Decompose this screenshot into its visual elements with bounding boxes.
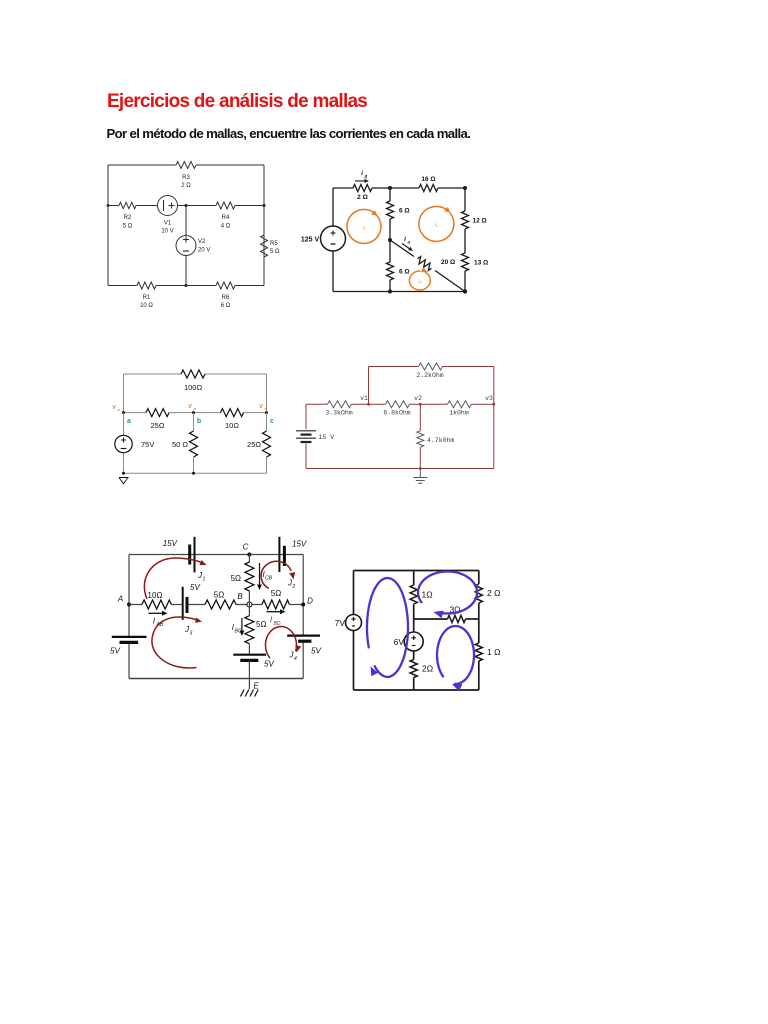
- node B (open): [237, 592, 252, 607]
- current I_BD arrow: [267, 609, 286, 627]
- page title: [107, 92, 367, 111]
- svg-text:20 Ω: 20 Ω: [441, 259, 455, 266]
- svg-text:3: 3: [190, 631, 193, 637]
- svg-text:7V: 7V: [335, 618, 346, 628]
- svg-text:2 Ω: 2 Ω: [487, 588, 500, 598]
- node top right: [463, 186, 467, 190]
- svg-text:5V: 5V: [110, 647, 120, 656]
- resistor 5 ohm B-E vertical: [245, 605, 267, 655]
- resistor 6.8kOhm: [383, 401, 410, 417]
- svg-text:10 Ω: 10 Ω: [140, 303, 153, 309]
- node a: [112, 405, 131, 425]
- svg-text:5Ω: 5Ω: [231, 574, 241, 583]
- mesh loop J2 (red): [261, 561, 295, 590]
- ground symbol: [413, 469, 427, 484]
- resistor 6 ohm lower: [387, 240, 410, 292]
- svg-text:16 Ω: 16 Ω: [421, 176, 435, 183]
- wire bottom row: [108, 285, 264, 287]
- battery 15V top-right: [279, 537, 306, 572]
- svg-text:i₃: i₃: [418, 279, 421, 285]
- junction node on bottom wire: [419, 467, 422, 470]
- resistor 25 ohm vertical: [247, 413, 270, 474]
- svg-text:i: i: [361, 170, 363, 177]
- diagonal wire with 20 ohm resistor: [390, 240, 465, 292]
- svg-text:13 Ω: 13 Ω: [474, 260, 488, 267]
- svg-text:2Ω: 2Ω: [422, 664, 433, 674]
- junction nodes bottom: [122, 472, 125, 475]
- svg-text:i₂: i₂: [435, 223, 438, 229]
- resistor R6: [216, 282, 235, 309]
- voltage source 7V: [335, 615, 362, 631]
- resistor R5: [261, 235, 281, 257]
- svg-text:4.7k0hm: 4.7k0hm: [427, 437, 454, 444]
- wire middle row: [124, 412, 267, 414]
- circuit 4 wires: [306, 367, 494, 469]
- node E and ground: [241, 679, 260, 697]
- voltage source V1: [158, 196, 178, 235]
- node between V1 and R4: [184, 204, 187, 207]
- svg-text:R2: R2: [124, 215, 132, 221]
- svg-text:5Ω: 5Ω: [256, 620, 266, 629]
- svg-text:5 Ω: 5 Ω: [123, 224, 133, 230]
- resistor 12 ohm: [462, 211, 487, 229]
- svg-text:2.2kOhm: 2.2kOhm: [416, 372, 443, 379]
- resistor 1 ohm middle top: [410, 571, 432, 633]
- svg-text:R3: R3: [182, 175, 190, 181]
- resistor 10 ohm: [221, 409, 244, 430]
- mesh loop i3 (orange, small bottom): [409, 267, 430, 290]
- svg-text:75V: 75V: [141, 440, 154, 449]
- svg-text:BC: BC: [235, 629, 242, 635]
- svg-text:v2: v2: [414, 395, 422, 402]
- resistor 16 ohm: [419, 176, 438, 192]
- svg-text:5V: 5V: [264, 660, 274, 669]
- svg-text:10 V: 10 V: [161, 229, 173, 235]
- resistor R2: [119, 202, 136, 229]
- mesh loop i1 (orange, left): [347, 209, 381, 243]
- svg-text:b: b: [197, 418, 201, 425]
- resistor 5 ohm (B-D section): [262, 589, 290, 609]
- svg-text:R4: R4: [222, 215, 230, 221]
- ground symbol: [119, 478, 128, 484]
- resistor R4: [216, 202, 235, 230]
- resistor 25 ohm: [146, 409, 169, 430]
- svg-text:5V: 5V: [190, 583, 200, 592]
- node top center: [388, 186, 392, 190]
- svg-text:V: V: [112, 405, 117, 411]
- svg-text:A: A: [117, 595, 123, 604]
- svg-text:V2: V2: [198, 239, 206, 245]
- node C: [243, 543, 252, 557]
- svg-text:5V: 5V: [311, 647, 321, 656]
- battery 5V on middle row: [183, 583, 201, 620]
- voltage source 75V: [115, 413, 155, 453]
- svg-text:D: D: [307, 597, 313, 606]
- circuit 6 outer square: [354, 571, 479, 691]
- node v2: [414, 395, 422, 406]
- resistor 6 ohm upper: [387, 188, 410, 240]
- node b: [188, 404, 201, 425]
- battery 5V left edge: [110, 637, 147, 656]
- svg-text:5Ω: 5Ω: [271, 589, 281, 598]
- resistor 100 ohm top: [181, 370, 205, 392]
- svg-text:6 Ω: 6 Ω: [221, 303, 231, 309]
- svg-text:g: g: [364, 174, 368, 179]
- svg-text:C: C: [243, 543, 249, 552]
- wire middle horizontal with 3 ohm: [414, 605, 479, 623]
- svg-text:c: c: [270, 418, 274, 425]
- svg-text:15V: 15V: [163, 539, 178, 548]
- mesh loop left (blue): [367, 578, 408, 677]
- svg-text:b: b: [194, 406, 197, 411]
- svg-text:25Ω: 25Ω: [151, 421, 165, 430]
- battery 5V right edge: [287, 636, 321, 656]
- wire middle row: [129, 604, 303, 606]
- battery 5V above E: [233, 655, 274, 679]
- svg-text:3.3kOhm: 3.3kOhm: [325, 410, 352, 417]
- current ia arrow on diagonal: [402, 236, 413, 251]
- svg-text:25Ω: 25Ω: [247, 440, 261, 449]
- circuit 5 outer rectangle wires: [129, 555, 303, 679]
- instruction line: [107, 127, 471, 140]
- mesh loop bottom right (blue): [437, 626, 474, 691]
- resistor 2 ohm middle bottom: [410, 651, 433, 690]
- svg-text:10Ω: 10Ω: [148, 591, 163, 600]
- svg-text:4: 4: [294, 656, 297, 662]
- svg-text:R1: R1: [143, 295, 151, 301]
- battery 15V top-left: [163, 537, 195, 573]
- resistor 2 ohm right top: [475, 584, 500, 603]
- node v1: [360, 395, 370, 406]
- resistor R1: [137, 282, 156, 309]
- current I_AB arrow: [149, 611, 168, 628]
- node D: [301, 597, 313, 607]
- resistor 2 ohm: [353, 185, 372, 202]
- mesh loop J4 (red): [266, 627, 302, 662]
- svg-text:i: i: [404, 236, 406, 243]
- current I_BC arrow: [232, 618, 245, 636]
- svg-text:15V: 15V: [292, 540, 307, 549]
- svg-text:R5: R5: [270, 241, 278, 247]
- svg-text:i₁: i₁: [363, 225, 366, 231]
- circuit 1 outer wire loop: [108, 165, 264, 286]
- svg-text:V: V: [259, 404, 264, 410]
- svg-text:CB: CB: [265, 576, 273, 582]
- svg-text:100Ω: 100Ω: [184, 383, 203, 392]
- resistor 4.7kOhm vertical: [417, 404, 455, 468]
- resistor 50 ohm vertical: [172, 413, 198, 474]
- svg-text:I: I: [153, 617, 156, 626]
- resistor 2.2kOhm top: [416, 363, 443, 379]
- resistor 1 ohm right bottom: [475, 643, 500, 661]
- svg-text:R6: R6: [222, 295, 230, 301]
- node c: [259, 404, 274, 425]
- svg-text:6 Ω: 6 Ω: [399, 208, 410, 215]
- node v3: [485, 395, 495, 406]
- resistor 5 ohm C-B vertical: [231, 555, 254, 605]
- voltage source 6V: [394, 632, 424, 651]
- mesh loop i2 (orange, right): [419, 206, 454, 241]
- junction node bottom center: [184, 284, 187, 287]
- svg-text:a: a: [118, 407, 121, 412]
- svg-text:5Ω: 5Ω: [214, 591, 224, 600]
- svg-text:12 Ω: 12 Ω: [473, 218, 487, 225]
- svg-text:2 Ω: 2 Ω: [181, 183, 191, 189]
- wire middle row: [107, 204, 266, 207]
- node A: [117, 595, 131, 607]
- svg-text:B: B: [237, 592, 243, 601]
- resistor 1kOhm: [448, 401, 472, 417]
- svg-text:E: E: [253, 682, 259, 691]
- svg-text:5 Ω: 5 Ω: [270, 249, 280, 255]
- svg-text:V1: V1: [164, 221, 172, 227]
- mesh loop J1 (red): [144, 558, 206, 599]
- resistor 13 ohm: [462, 253, 489, 271]
- svg-text:6V: 6V: [394, 637, 405, 647]
- svg-text:1 Ω: 1 Ω: [487, 647, 500, 657]
- current I_CB arrow: [257, 563, 273, 590]
- node middle: [388, 238, 392, 242]
- resistor 5 ohm (A-B section): [205, 591, 236, 610]
- svg-text:1: 1: [203, 577, 206, 583]
- svg-text:I: I: [270, 616, 273, 625]
- svg-text:V: V: [188, 404, 193, 410]
- svg-text:4 Ω: 4 Ω: [221, 224, 231, 230]
- svg-text:v3: v3: [485, 395, 493, 402]
- resistor R3: [176, 162, 196, 190]
- svg-text:6 Ω: 6 Ω: [399, 269, 410, 276]
- svg-text:6.8kOhm: 6.8kOhm: [383, 410, 410, 417]
- svg-text:125 V: 125 V: [301, 237, 320, 244]
- mesh loop J3 (red): [152, 617, 202, 668]
- voltage source V2: [176, 206, 210, 286]
- circuit 2 outer wires: [333, 188, 465, 292]
- svg-text:1Ω: 1Ω: [422, 590, 433, 600]
- svg-text:10Ω: 10Ω: [225, 421, 239, 430]
- battery 15 V: [296, 431, 334, 442]
- svg-text:c: c: [265, 406, 268, 411]
- mesh loop top right (blue): [418, 571, 477, 618]
- circuit 3 outer wires: [124, 374, 267, 473]
- svg-text:50 Ω: 50 Ω: [172, 440, 188, 449]
- resistor 10 ohm: [142, 591, 172, 609]
- node bottom center: [388, 290, 392, 294]
- voltage source 125 V: [301, 226, 346, 251]
- current ig arrow: [355, 170, 369, 183]
- svg-text:2: 2: [292, 584, 296, 590]
- svg-text:a: a: [127, 418, 131, 425]
- resistor 3.3kOhm: [325, 401, 352, 417]
- svg-text:15 V: 15 V: [319, 434, 335, 441]
- svg-text:2 Ω: 2 Ω: [357, 194, 368, 201]
- svg-text:v1: v1: [360, 395, 368, 402]
- svg-text:20 V: 20 V: [198, 248, 210, 254]
- svg-text:a: a: [408, 240, 411, 245]
- svg-text:1k0hm: 1k0hm: [449, 410, 469, 417]
- node bottom right: [463, 289, 467, 293]
